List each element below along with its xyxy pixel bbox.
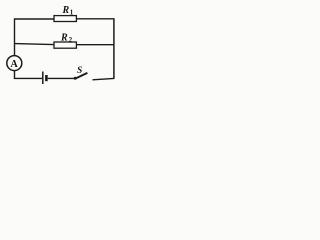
wire: left vertical upper	[14, 18, 16, 56]
svg-text:2: 2	[69, 36, 73, 44]
wire: R2 branch right segment	[76, 44, 114, 46]
wire: battery to switch	[48, 77, 74, 79]
switch S blade	[75, 73, 87, 79]
svg-text:1: 1	[70, 8, 74, 16]
resistor R1	[54, 16, 76, 22]
svg-text:R: R	[60, 33, 68, 44]
svg-text:R: R	[62, 5, 70, 16]
switch S contact dot	[74, 77, 77, 80]
wire: bottom left segment	[14, 77, 42, 79]
resistor R2	[54, 42, 76, 48]
ammeter A1	[7, 56, 22, 71]
wire: right vertical	[113, 18, 115, 79]
svg-text:A: A	[10, 59, 18, 70]
wire: top branch left segment	[15, 18, 55, 20]
wire: bottom right segment	[93, 78, 115, 79]
battery long plate	[42, 72, 44, 85]
wire: R2 branch left segment	[15, 44, 55, 45]
battery short thick plate	[45, 75, 48, 81]
wire: top branch right segment	[76, 18, 114, 20]
wire: left vertical lower	[14, 70, 16, 79]
svg-text:S: S	[77, 66, 82, 76]
